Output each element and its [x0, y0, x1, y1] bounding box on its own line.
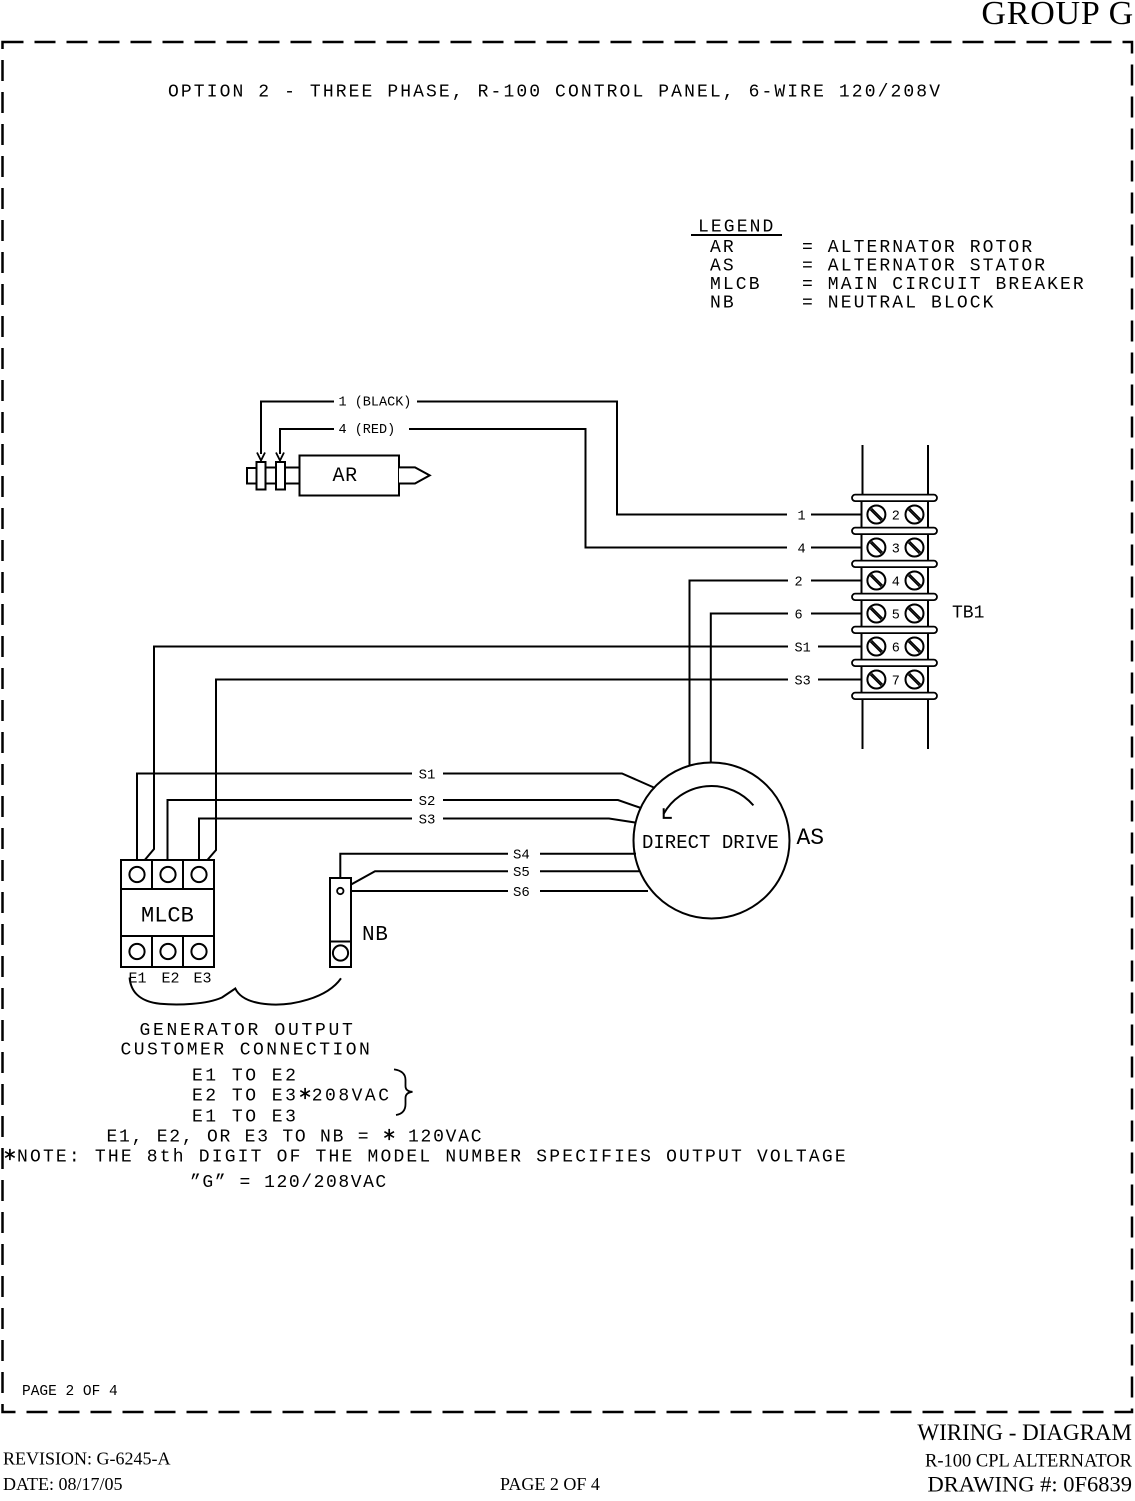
svg-text:7: 7	[892, 674, 900, 689]
legend row AR	[710, 238, 1034, 258]
svg-text:AS: AS	[710, 257, 736, 277]
svg-text:S2: S2	[419, 794, 436, 810]
svg-text:3: 3	[892, 542, 900, 557]
svg-text:DRAWING #: 0F6839: DRAWING #: 0F6839	[928, 1472, 1132, 1497]
wire S6 NB to AS	[344, 885, 649, 901]
svg-text:S3: S3	[795, 674, 811, 689]
legend row AS	[710, 257, 1047, 277]
legend row MLCB	[710, 275, 1086, 295]
svg-text:= MAIN CIRCUIT BREAKER: = MAIN CIRCUIT BREAKER	[802, 275, 1086, 295]
asterisk star 120VAC	[384, 1129, 394, 1140]
svg-text:2: 2	[892, 509, 900, 524]
svg-text:S5: S5	[513, 865, 530, 881]
svg-text:2: 2	[795, 575, 803, 590]
svg-text:REVISION: G-6245-A: REVISION: G-6245-A	[3, 1449, 170, 1469]
svg-text:S1: S1	[795, 641, 811, 656]
alternator rotor AR	[247, 456, 430, 496]
svg-text:= ALTERNATOR STATOR: = ALTERNATOR STATOR	[802, 257, 1047, 277]
footer	[3, 1420, 1133, 1497]
TB1 separator bar	[852, 495, 937, 502]
TB1 separator bar	[852, 627, 937, 634]
svg-text:4: 4	[798, 542, 806, 557]
svg-text:S6: S6	[513, 885, 530, 901]
svg-text:DIRECT DRIVE: DIRECT DRIVE	[642, 832, 779, 854]
svg-text:MLCB: MLCB	[710, 275, 762, 295]
svg-text:AR: AR	[333, 465, 358, 488]
svg-text:E1 TO E3: E1 TO E3	[192, 1108, 298, 1128]
svg-text:OPTION 2 - THREE PHASE, R-100: OPTION 2 - THREE PHASE, R-100 CONTROL PA…	[168, 83, 942, 103]
svg-text:6: 6	[795, 608, 803, 623]
TB1 terminal 2	[862, 501, 929, 528]
svg-text:1: 1	[798, 509, 806, 524]
svg-text:E1 TO E2: E1 TO E2	[192, 1067, 298, 1087]
main circuit breaker MLCB	[121, 860, 214, 967]
TB1 terminal 6	[862, 633, 929, 660]
alternator stator AS circle	[634, 763, 790, 919]
svg-text:R-100 CPL ALTERNATOR: R-100 CPL ALTERNATOR	[925, 1452, 1133, 1472]
TB1 terminal 7	[862, 666, 929, 693]
svg-text:GROUP G: GROUP G	[981, 0, 1134, 32]
svg-text:NB: NB	[362, 924, 389, 947]
wire 6 TB1-5 to AS	[711, 608, 862, 763]
svg-text:AS: AS	[797, 825, 825, 851]
svg-text:WIRING - DIAGRAM: WIRING - DIAGRAM	[917, 1420, 1132, 1445]
svg-text:4 (RED): 4 (RED)	[339, 423, 396, 438]
notes text block	[4, 1021, 848, 1193]
wire 2 TB1-4 to AS	[690, 575, 862, 766]
wire S1 TB1-6 to MLCB E1	[138, 641, 862, 868]
wire S4 NB to AS	[340, 848, 636, 888]
svg-text:PAGE 2 OF 4: PAGE 2 OF 4	[500, 1474, 600, 1494]
TB1 separator bar	[852, 528, 937, 535]
legend row NB	[710, 294, 996, 314]
wire S1 MLCB E1 to AS	[137, 767, 655, 866]
TB1 separator bar	[852, 594, 937, 601]
customer connection brace	[130, 978, 341, 1005]
svg-text:CUSTOMER CONNECTION: CUSTOMER CONNECTION	[121, 1041, 373, 1061]
wire S3 MLCB E3 to AS	[199, 812, 635, 866]
svg-text:PAGE 2 OF 4: PAGE 2 OF 4	[22, 1384, 118, 1400]
wire 4 (RED) from AR slip ring to TB1-3	[276, 423, 862, 557]
svg-text:E3: E3	[194, 971, 212, 988]
svg-text:1 (BLACK): 1 (BLACK)	[339, 396, 412, 411]
wire S2 MLCB E2 to AS	[168, 794, 642, 867]
svg-text:”G” = 120/208VAC: ”G” = 120/208VAC	[190, 1173, 388, 1193]
svg-text:E2: E2	[162, 971, 180, 988]
svg-text:4: 4	[892, 575, 900, 590]
svg-text:MLCB: MLCB	[141, 904, 194, 929]
svg-text:6: 6	[892, 641, 900, 656]
svg-text:S4: S4	[513, 848, 530, 864]
TB1 terminal 4	[862, 567, 929, 594]
svg-text:5: 5	[892, 608, 900, 623]
TB1 separator bar	[852, 561, 937, 568]
svg-text:E2 TO E3 208VAC: E2 TO E3 208VAC	[192, 1087, 392, 1107]
TB1 separator bar	[852, 660, 937, 667]
terminal block TB1	[863, 445, 929, 749]
svg-text:= NEUTRAL BLOCK: = NEUTRAL BLOCK	[802, 294, 996, 314]
neutral block NB	[330, 878, 389, 967]
svg-text:S3: S3	[419, 812, 436, 828]
wire 1 (BLACK) from AR slip ring to TB1-2	[257, 396, 862, 525]
svg-text:DATE: 08/17/05: DATE: 08/17/05	[3, 1474, 123, 1494]
TB1 terminal 3	[862, 534, 929, 561]
legend heading	[691, 218, 782, 238]
TB1 separator bar	[852, 693, 937, 700]
asterisk star 208VAC	[300, 1088, 310, 1099]
svg-text:E1, E2, OR E3 TO NB = 120VAC: E1, E2, OR E3 TO NB = 120VAC	[107, 1128, 484, 1148]
svg-text:AR: AR	[710, 238, 736, 258]
svg-text:GENERATOR OUTPUT: GENERATOR OUTPUT	[140, 1021, 356, 1041]
svg-text:S1: S1	[419, 767, 436, 783]
svg-text:NOTE: THE 8th DIGIT OF THE MOD: NOTE: THE 8th DIGIT OF THE MODEL NUMBER …	[4, 1148, 848, 1168]
wire S3 TB1-7 to MLCB E3	[200, 674, 862, 868]
svg-text:NB: NB	[710, 294, 736, 314]
svg-text:TB1: TB1	[952, 604, 984, 624]
asterisk star NOTE	[5, 1149, 15, 1160]
wire S5 NB to AS	[343, 865, 640, 889]
svg-text:= ALTERNATOR ROTOR: = ALTERNATOR ROTOR	[802, 238, 1034, 258]
TB1 terminal 5	[862, 600, 929, 627]
